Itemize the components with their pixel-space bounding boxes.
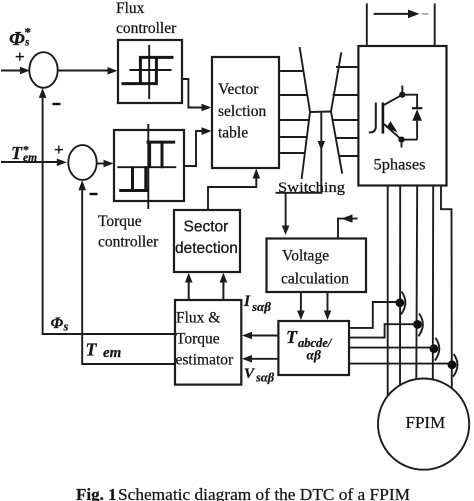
svg-text:FPIM: FPIM bbox=[406, 413, 446, 432]
svg-text:detection: detection bbox=[175, 240, 238, 257]
wire estimator to sector detection arrow 1 bbox=[185, 273, 193, 300]
wire bus line 1 fan to inverter bbox=[336, 66, 358, 68]
wire phase 4 bbox=[432, 186, 434, 380]
wire estimator to sector detection arrow 2 bbox=[220, 273, 228, 300]
node torque reference label T*em bbox=[11, 143, 37, 165]
flux and torque estimator box bbox=[175, 300, 241, 385]
wire phase 5 with jog bbox=[441, 186, 452, 389]
wire torque feedback from estimator to torque junction bbox=[78, 180, 175, 364]
wire bus line 1 table to fan bbox=[279, 70, 304, 72]
wire current tap 2 to transform block bbox=[349, 324, 418, 337]
wire switching states feedback arrow into voltage calculation bbox=[338, 214, 358, 238]
wire bus line 2 fan to inverter bbox=[333, 94, 359, 96]
wire phase 3 bbox=[415, 186, 418, 379]
svg-text:+: + bbox=[15, 47, 25, 66]
svg-text:Torque: Torque bbox=[176, 331, 220, 348]
current sensor 3 on phase 4 bbox=[430, 338, 440, 361]
wire voltage calculation to transform arrow 1 bbox=[297, 292, 305, 320]
svg-text:T: T bbox=[11, 143, 23, 163]
svg-text:table: table bbox=[218, 125, 248, 142]
svg-text:Fig. 1: Fig. 1 bbox=[76, 485, 117, 501]
wire transform to estimator voltage arrow bbox=[242, 355, 278, 363]
label T em bbox=[86, 340, 122, 362]
estimator label bbox=[176, 310, 235, 369]
label Switching bbox=[276, 180, 346, 196]
wire flux junction to flux controller bbox=[58, 67, 118, 75]
wire flux reference input bbox=[1, 47, 30, 74]
wire bus line 5 fan to inverter bbox=[339, 155, 359, 157]
svg-text:Torque: Torque bbox=[98, 213, 142, 230]
wire bus line 5 table to fan bbox=[279, 152, 306, 154]
torque controller box bbox=[114, 130, 184, 201]
current sensor 4 on phase 5 bbox=[448, 354, 458, 377]
flux controller box bbox=[118, 40, 182, 103]
node minus sign at torque junction bbox=[90, 193, 98, 195]
wire voltage calculation to transform arrow 2 bbox=[324, 292, 332, 320]
wire bus middle link bbox=[310, 111, 331, 114]
label V saβ bbox=[244, 366, 275, 385]
svg-text:em: em bbox=[103, 345, 121, 361]
svg-text:I: I bbox=[243, 293, 251, 310]
transform block T abcde/alphabeta bbox=[278, 321, 349, 375]
transistor IGBT with diode inside inverter bbox=[369, 86, 422, 148]
wire current tap 3 to transform block bbox=[349, 347, 434, 349]
wire torque controller output to vector table bbox=[184, 127, 212, 166]
wire bus line 3 fan to inverter bbox=[333, 119, 359, 121]
voltage calculation box bbox=[267, 239, 367, 293]
torque hysteresis symbol bbox=[117, 124, 176, 209]
wire phase 2 bbox=[399, 186, 401, 385]
five phase inverter box bbox=[358, 46, 446, 186]
svg-text:T: T bbox=[86, 340, 98, 360]
svg-text:Flux &: Flux & bbox=[176, 310, 220, 327]
bus fan-out symbol right bbox=[331, 52, 342, 173]
motor FPIM circle bbox=[378, 379, 469, 470]
svg-text:Φ: Φ bbox=[51, 315, 64, 332]
wire current tap 1 to transform block bbox=[349, 302, 400, 328]
svg-text:αβ: αβ bbox=[307, 348, 321, 363]
transform block label bbox=[286, 327, 333, 363]
svg-text:calculation: calculation bbox=[281, 271, 349, 288]
wire transform to estimator current arrow bbox=[242, 332, 278, 340]
vector selection table box bbox=[212, 57, 279, 168]
node flux reference label Φs* bbox=[9, 25, 31, 51]
svg-text:estimator: estimator bbox=[176, 352, 235, 369]
bus fan-in symbol left bbox=[300, 47, 310, 179]
summing junction flux bbox=[29, 52, 57, 88]
node minus sign at flux junction bbox=[53, 103, 61, 105]
wire flux feedback from estimator to flux junction bbox=[39, 88, 175, 334]
current sensor 1 on phase 2 bbox=[396, 292, 406, 315]
wire current tap 4 to transform block bbox=[349, 363, 452, 365]
wire bus line 4 table to fan bbox=[279, 136, 308, 138]
svg-text:Sector: Sector bbox=[184, 219, 229, 236]
wire sector detection to vector table bbox=[208, 169, 260, 211]
svg-text:T: T bbox=[286, 327, 298, 347]
summing junction torque bbox=[68, 145, 96, 180]
wire phase 1 bbox=[387, 186, 389, 396]
svg-text:sαβ: sαβ bbox=[255, 371, 275, 385]
sector detection box bbox=[174, 210, 240, 272]
wire dc power flow arrow bbox=[374, 10, 429, 19]
svg-text:selction: selction bbox=[218, 103, 266, 120]
svg-text:controller: controller bbox=[116, 20, 177, 37]
current sensor 2 on phase 3 bbox=[413, 314, 423, 337]
wire dc link stub right bbox=[434, 3, 436, 46]
sector detection label bbox=[175, 219, 238, 258]
label Φs bbox=[51, 315, 69, 334]
svg-text:Flux: Flux bbox=[116, 0, 145, 17]
svg-text:s: s bbox=[63, 320, 69, 334]
wire bus line 4 fan to inverter bbox=[336, 137, 359, 139]
wire switching to voltage calculation bbox=[282, 193, 290, 235]
wire torque junction to torque controller bbox=[97, 160, 114, 168]
wire torque reference input bbox=[1, 140, 67, 166]
wire dc link stub left bbox=[366, 3, 368, 46]
wire flux controller output to vector table bbox=[182, 79, 212, 111]
svg-text:Vector: Vector bbox=[218, 81, 259, 98]
svg-text:controller: controller bbox=[98, 234, 159, 251]
wire switching signal drop from bus bbox=[318, 112, 326, 193]
caption Fig. 1 bbox=[76, 485, 410, 501]
svg-text:Schematic diagram of the DTC o: Schematic diagram of the DTC of a FPIM bbox=[118, 485, 410, 501]
flux controller label bbox=[116, 0, 177, 37]
label I saβ bbox=[243, 293, 271, 314]
voltage calculation label bbox=[281, 248, 349, 288]
torque controller label bbox=[98, 213, 159, 251]
svg-text:5phases: 5phases bbox=[374, 157, 426, 174]
wire bus line 3 table to fan bbox=[279, 119, 310, 121]
svg-text:V: V bbox=[244, 366, 256, 382]
svg-text:s: s bbox=[24, 37, 30, 49]
svg-text:Voltage: Voltage bbox=[282, 248, 329, 265]
vector selection table label bbox=[218, 81, 266, 142]
svg-text:sαβ: sαβ bbox=[251, 299, 271, 314]
svg-text:+: + bbox=[54, 140, 64, 159]
wire bus line 2 table to fan bbox=[279, 94, 308, 96]
flux hysteresis symbol bbox=[122, 45, 174, 99]
